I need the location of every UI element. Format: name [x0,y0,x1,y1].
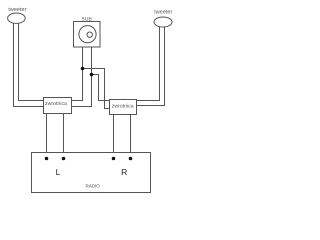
wire: SUB right terminal down, into left crossover lower-right [72,47,92,107]
wire: branch from junction B right and down into right crossover upper-left [92,75,110,101]
radio terminal R- dot [129,157,133,161]
svg-text:tweeter: tweeter [154,10,172,16]
wire: right crossover output 1 down to radio R+ [113,115,115,159]
svg-text:zwrotnica: zwrotnica [45,101,67,107]
svg-text:zwrotnica: zwrotnica [112,103,134,109]
wire: left tweeter inner lead down to left crossover upper-left [19,20,44,101]
svg-text:L: L [56,167,61,177]
junction A dot [81,67,85,71]
left tweeter ellipse [8,13,26,23]
right crossover box zwrotnica [110,100,137,115]
radio terminal L+ dot [45,157,49,161]
wire: right tweeter inner lead down to right crossover upper-right [137,24,160,101]
radio terminal L- dot [62,157,66,161]
wire: right tweeter outer lead down to right crossover lower-right [137,24,165,106]
right tweeter ellipse [154,17,172,27]
svg-text:R: R [121,167,127,177]
wire: branch from junction A right and down into right crossover lower-left [83,69,110,109]
left crossover box zwrotnica [44,98,72,114]
SUB box [74,22,101,48]
wire: right crossover output 2 down to radio R- [130,115,132,159]
svg-text:tweeter: tweeter [8,7,26,13]
SUB speaker outer circle [79,26,96,43]
wire: left tweeter outer lead down to left crossover lower-left [14,20,44,107]
wire: left crossover output 2 down to radio L- [63,114,65,159]
junction B dot [90,73,94,77]
svg-text:RADIO: RADIO [85,183,100,188]
SUB speaker inner circle [87,32,92,37]
radio box [32,153,151,193]
wire: SUB left terminal down, into left crossover upper-right [72,47,83,101]
radio terminal R+ dot [112,157,116,161]
wire: left crossover output 1 down to radio L+ [46,114,48,159]
